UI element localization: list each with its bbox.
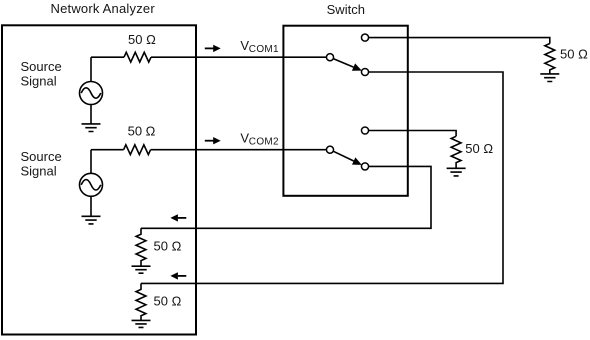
- arrow: return signal direction (upper): [170, 214, 186, 221]
- wire: source V1 bottom lead: [90, 105, 92, 124]
- resistor R2 50 ohm series (bottom row): [124, 145, 151, 155]
- Network Analyzer enclosure box: [2, 25, 196, 334]
- value label: 50 ohm (R1): [128, 32, 156, 47]
- resistor R4 50 ohm termination (analyzer lower): [136, 283, 146, 320]
- svg-text:Signal: Signal: [21, 163, 57, 178]
- switch S2 upper throw terminal: [361, 127, 368, 134]
- ground: below source V2: [82, 216, 101, 224]
- wire: row2 from R2 to switch S2 pole: [151, 149, 327, 151]
- ground: below resistor R6: [132, 266, 151, 273]
- label: Network Analyzer: [51, 1, 156, 16]
- wire: S2 upper throw to mid-right termination: [368, 131, 456, 137]
- svg-text:Signal: Signal: [21, 73, 57, 88]
- svg-text:Source: Source: [21, 59, 62, 74]
- value label: 50 ohm (R4): [154, 294, 182, 309]
- resistor R5 50 ohm termination (mid right): [451, 136, 461, 168]
- svg-text:Source: Source: [21, 149, 62, 164]
- svg-text:COM2: COM2: [249, 137, 279, 148]
- svg-text:50 Ω: 50 Ω: [154, 238, 182, 253]
- resistor R1 50 ohm series (top row): [124, 52, 151, 62]
- wire: source V2 top riser: [90, 150, 92, 174]
- switch S2 blade with arrowhead (pole to lower throw): [333, 151, 362, 165]
- switch S1 blade with arrowhead (pole to lower throw): [333, 59, 362, 71]
- switch S1 pole terminal: [326, 54, 333, 61]
- resistor R6 50 ohm termination (analyzer upper): [136, 228, 146, 266]
- switch S1 lower throw terminal: [361, 68, 368, 75]
- svg-text:COM1: COM1: [249, 44, 279, 55]
- arrow: signal direction into VCOM1: [205, 45, 221, 52]
- label: Source Signal (bottom source): [21, 149, 62, 179]
- arrow: return signal direction (lower): [170, 272, 186, 279]
- arrow: signal direction into VCOM2: [205, 137, 221, 144]
- svg-text:50 Ω: 50 Ω: [154, 294, 182, 309]
- value label: 50 ohm (R5): [465, 141, 493, 156]
- switch S1 upper throw terminal: [361, 34, 368, 41]
- svg-text:50 Ω: 50 Ω: [560, 47, 588, 62]
- value label: 50 ohm (R6): [154, 238, 182, 253]
- wire: row1 from R1 to switch S1 pole: [151, 56, 327, 58]
- svg-text:Switch: Switch: [327, 2, 365, 17]
- resistor R3 50 ohm termination (far right): [545, 44, 555, 74]
- ground: below source V1: [82, 124, 101, 132]
- wire: row1 from V1 to resistor R1: [91, 56, 124, 58]
- ground: below resistor R4: [132, 320, 151, 327]
- svg-text:50 Ω: 50 Ω: [128, 123, 156, 138]
- wire: S2 lower throw right, down, and back to analyzer (return path A): [141, 166, 431, 228]
- svg-text:50 Ω: 50 Ω: [465, 141, 493, 156]
- wire: S1 upper throw to far-right termination: [368, 38, 549, 44]
- AC source V2 (bottom Source Signal generator): [80, 173, 103, 196]
- ground: below resistor R3: [540, 74, 559, 82]
- ground: below resistor R5: [447, 168, 466, 176]
- wire: source V1 top riser: [90, 57, 92, 81]
- svg-text:Network Analyzer: Network Analyzer: [51, 1, 156, 16]
- node label VCOM1: [240, 38, 279, 55]
- value label: 50 ohm (R2): [128, 123, 156, 138]
- AC source V1 (top Source Signal generator): [80, 82, 103, 105]
- label: Switch: [327, 2, 365, 17]
- svg-text:50 Ω: 50 Ω: [128, 32, 156, 47]
- switch S2 pole terminal: [326, 146, 333, 153]
- value label: 50 ohm (R3): [560, 47, 588, 62]
- switch S2 lower throw terminal: [361, 163, 368, 170]
- label: Source Signal (top source): [21, 59, 62, 89]
- Switch enclosure box: [283, 26, 407, 196]
- wire: row2 from V2 to resistor R2: [91, 149, 124, 151]
- node label VCOM2: [240, 130, 279, 147]
- wire: S1 lower throw right, down, and back to analyzer (return path B): [141, 72, 503, 283]
- wire: source V2 bottom lead: [90, 196, 92, 216]
